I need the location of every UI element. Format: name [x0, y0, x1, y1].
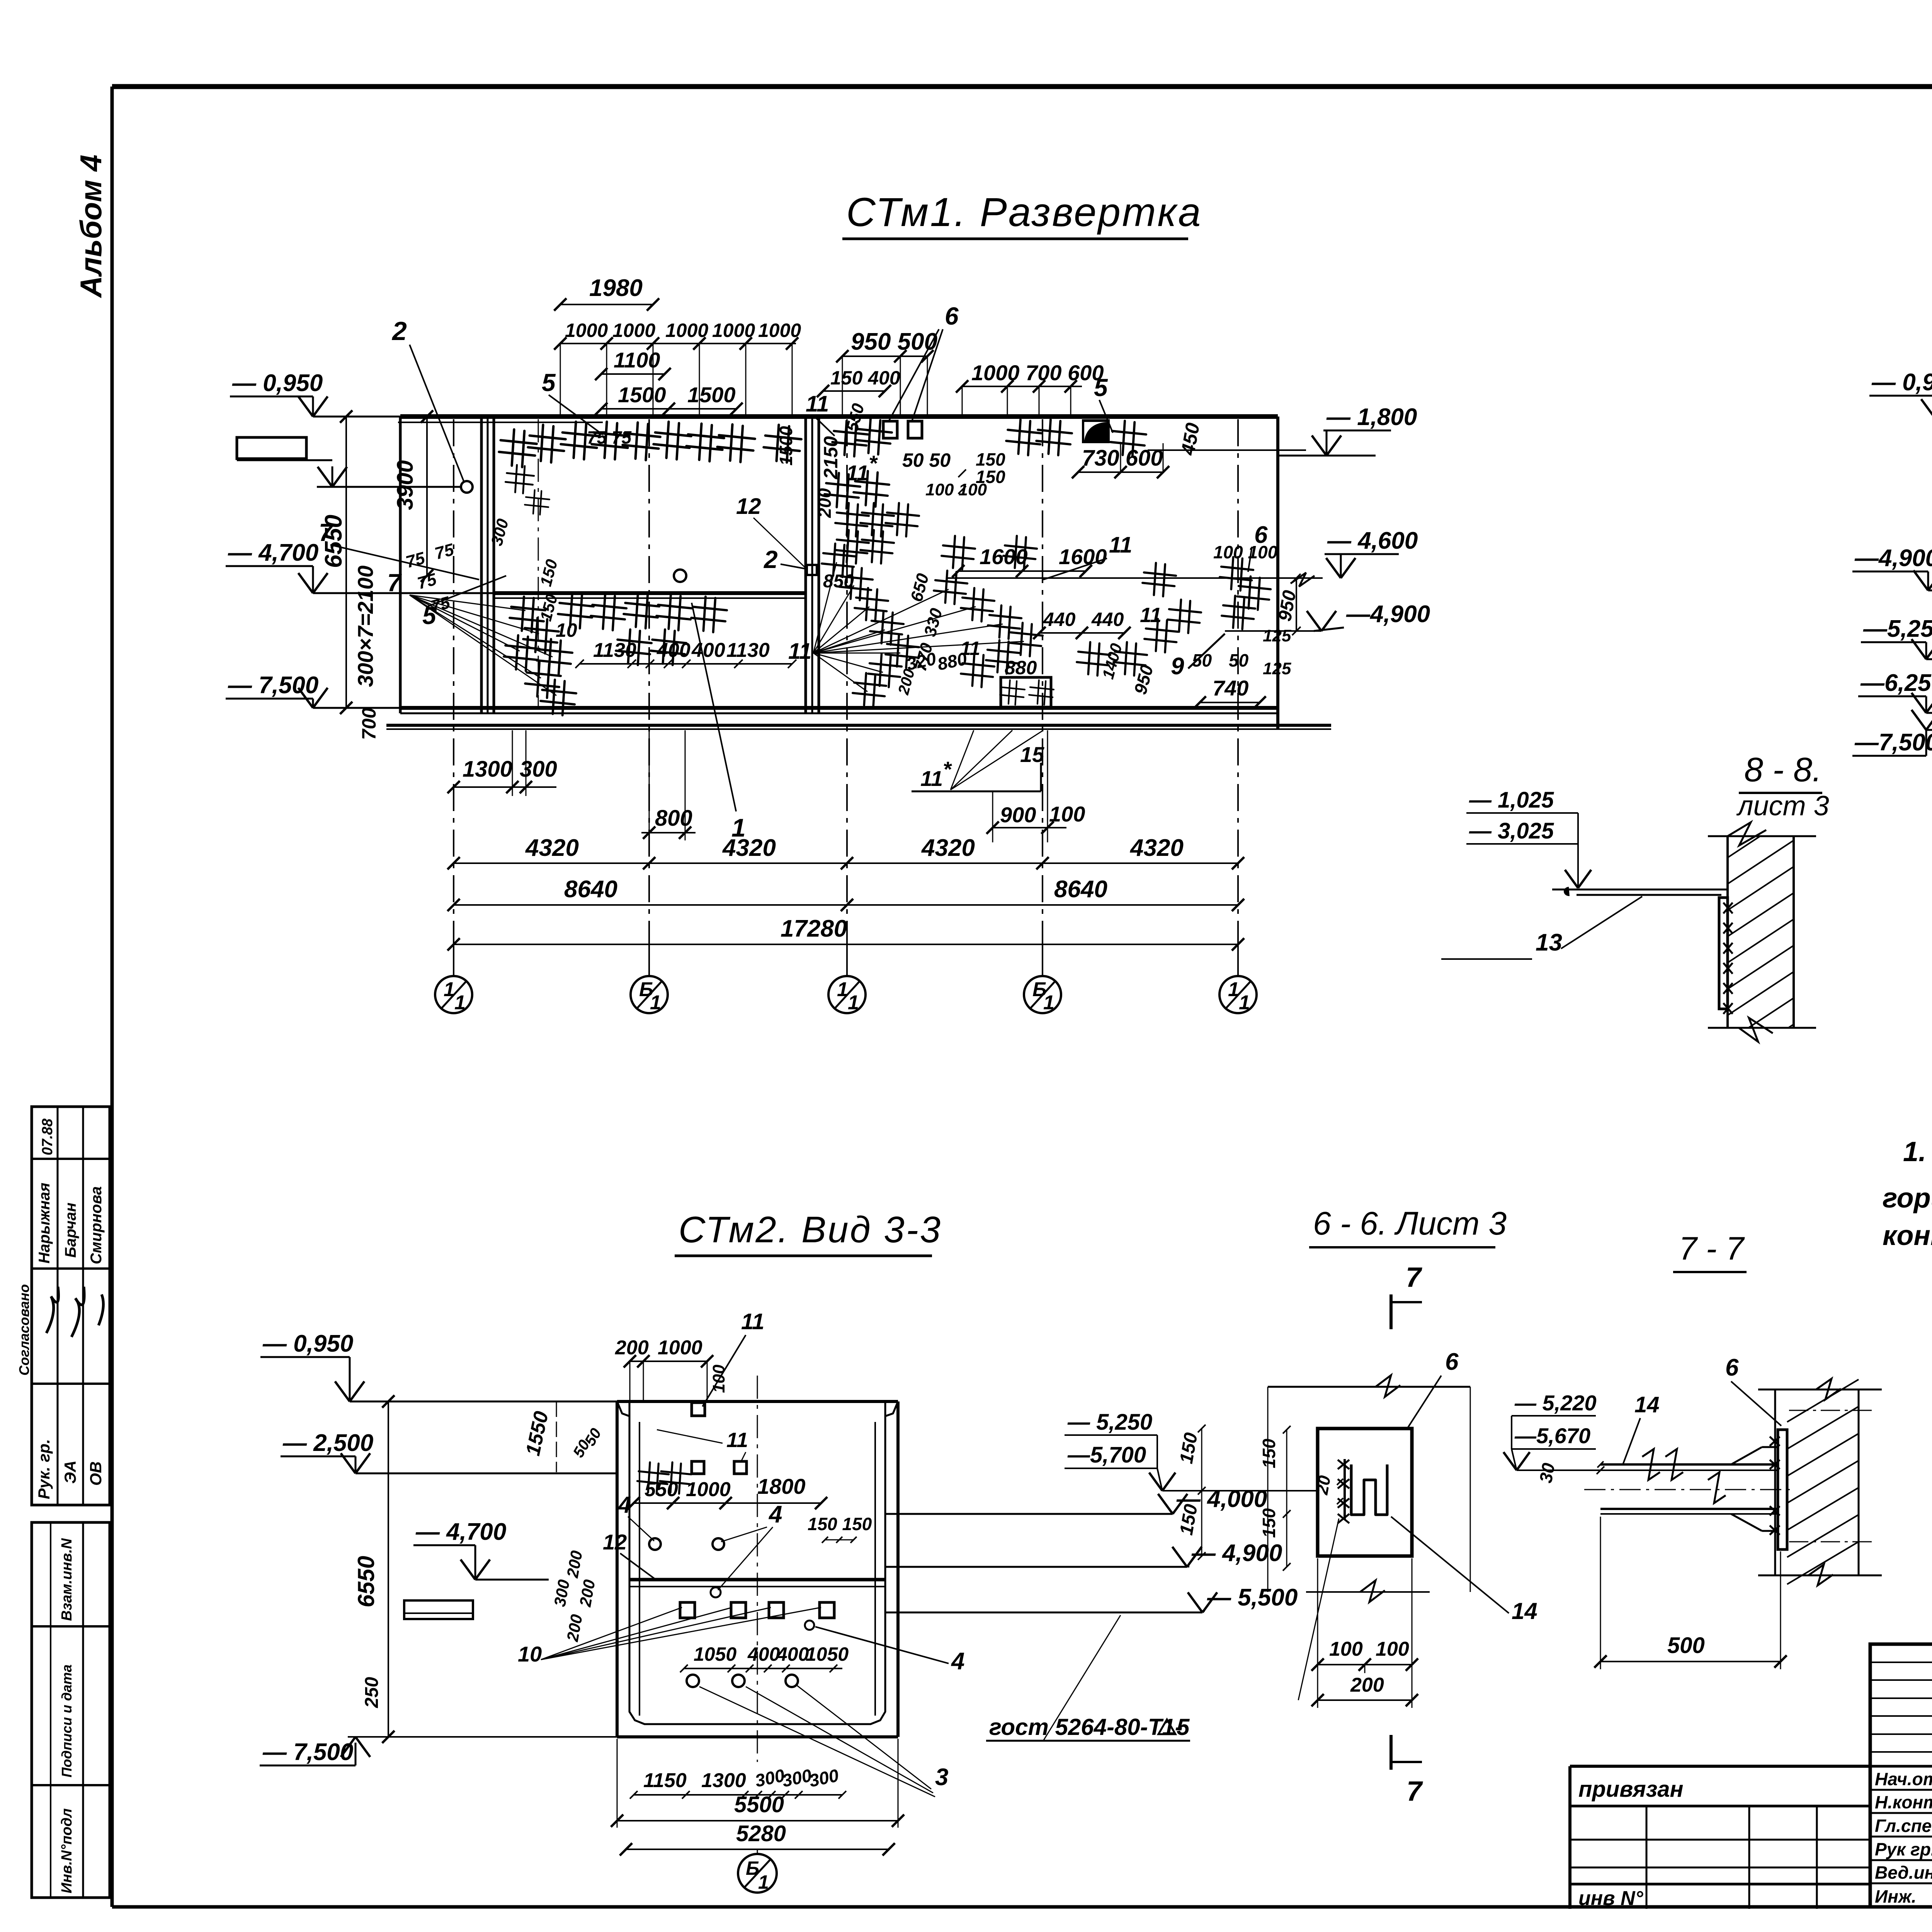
- svg-text:4: 4: [768, 1501, 782, 1528]
- svg-text:1: 1: [454, 992, 466, 1014]
- svg-text:4320: 4320: [722, 835, 776, 861]
- svg-text:1150: 1150: [643, 1769, 687, 1792]
- svg-text:— 4,700: — 4,700: [228, 539, 318, 566]
- svg-text:6: 6: [1254, 522, 1268, 548]
- svg-text:гост 5264-80-Т1-: гост 5264-80-Т1-: [989, 1714, 1183, 1740]
- svg-text:— 7,500: — 7,500: [262, 1739, 353, 1765]
- svg-text:Смирнова: Смирнова: [88, 1186, 105, 1264]
- svg-text:1980: 1980: [589, 275, 643, 301]
- svg-text:1: 1: [848, 992, 859, 1014]
- svg-text:4320: 4320: [525, 835, 579, 861]
- svg-text:17280: 17280: [781, 915, 847, 942]
- svg-text:1000: 1000: [758, 320, 801, 341]
- view3 centerline: [757, 1376, 758, 1762]
- svg-text:1050: 1050: [694, 1643, 736, 1665]
- left stamp table lower: [32, 1522, 110, 1898]
- svg-text:200: 200: [815, 488, 835, 518]
- svg-text:8640: 8640: [564, 876, 617, 903]
- svg-text:3900: 3900: [393, 460, 418, 510]
- svg-text:— 1,025: — 1,025: [1469, 787, 1554, 813]
- grid bubbles: [453, 944, 454, 976]
- svg-text:11: 11: [846, 461, 869, 485]
- svg-text:200: 200: [615, 1337, 649, 1359]
- svg-text:1600: 1600: [1059, 544, 1107, 569]
- svg-text:100: 100: [1376, 1638, 1409, 1660]
- left revision bar: [237, 437, 306, 459]
- detail 8-8 plate: [1719, 898, 1728, 1009]
- svg-text:5: 5: [542, 369, 556, 396]
- svg-text:Инв.N°подл: Инв.N°подл: [59, 1808, 75, 1893]
- svg-text:100: 100: [1329, 1638, 1363, 1660]
- svg-text:1: 1: [1228, 978, 1239, 1001]
- 7-7 anchor head: [1731, 1447, 1762, 1464]
- svg-text:6: 6: [1725, 1354, 1739, 1381]
- svg-text:Барчан: Барчан: [62, 1202, 79, 1258]
- svg-text:50: 50: [1229, 650, 1249, 670]
- svg-text:250: 250: [362, 1677, 382, 1708]
- svg-text:—7,500: —7,500: [1854, 729, 1932, 756]
- svg-text:1130: 1130: [726, 639, 770, 662]
- view3 interior hash top cluster: [636, 1461, 670, 1495]
- svg-text:5280: 5280: [736, 1821, 786, 1846]
- svg-text:*: *: [943, 757, 952, 781]
- svg-text:7: 7: [1406, 1262, 1422, 1293]
- svg-text:— 5,500: — 5,500: [1207, 1584, 1298, 1611]
- svg-text:1500: 1500: [776, 426, 796, 466]
- svg-text:1000: 1000: [565, 320, 608, 341]
- svg-text:740: 740: [1213, 676, 1248, 700]
- svg-text:14: 14: [1512, 1598, 1537, 1624]
- detail 8-8 rod: [1552, 889, 1728, 891]
- svg-text:880: 880: [1005, 657, 1037, 679]
- svg-text:— 5,220: — 5,220: [1514, 1391, 1597, 1415]
- svg-text:14: 14: [1634, 1392, 1660, 1417]
- svg-text:—6,250: —6,250: [1860, 670, 1932, 696]
- svg-text:1050: 1050: [806, 1643, 849, 1665]
- svg-text:Рук. гр.: Рук. гр.: [35, 1439, 53, 1499]
- svg-text:8 - 8.: 8 - 8.: [1744, 750, 1822, 789]
- svg-text:— 0,950: — 0,950: [232, 370, 323, 396]
- svg-text:150: 150: [1259, 1439, 1279, 1468]
- svg-text:100: 100: [1049, 802, 1085, 826]
- svg-text:1130: 1130: [593, 639, 636, 662]
- svg-text:— 1,800: — 1,800: [1326, 404, 1417, 430]
- svg-text:1: 1: [1043, 992, 1054, 1014]
- dim row 17280: [454, 944, 1238, 945]
- svg-text:2150: 2150: [820, 436, 842, 480]
- view3 wall top chamfers: [617, 1401, 629, 1416]
- svg-text:5500: 5500: [734, 1792, 784, 1817]
- svg-text:1000 700 600: 1000 700 600: [971, 361, 1104, 385]
- svg-text:*: *: [869, 451, 878, 475]
- svg-text:12: 12: [736, 494, 761, 519]
- svg-text:горизонтальной арматуре стен: горизонтальной арматуре стен для создани…: [1883, 1183, 1932, 1214]
- mid right hash clusters: [940, 534, 976, 571]
- svg-text:100: 100: [709, 1364, 728, 1393]
- svg-text:30: 30: [1536, 1461, 1559, 1485]
- svg-text:125: 125: [1263, 626, 1291, 645]
- break marks: [1728, 822, 1766, 845]
- svg-text:— 0,950: — 0,950: [1871, 369, 1932, 396]
- svg-text:300×7=2100: 300×7=2100: [353, 565, 378, 687]
- left stamp table upper: [32, 1107, 110, 1505]
- label rows: [1870, 1789, 1932, 1791]
- svg-text:—5,670: —5,670: [1514, 1423, 1590, 1448]
- view3 embed squares top: [692, 1403, 705, 1416]
- svg-text:5: 5: [1177, 1714, 1190, 1740]
- section marker 7 bottom: [1389, 1735, 1393, 1770]
- svg-text:Н.контр: Н.контр: [1875, 1792, 1932, 1812]
- svg-text:Подписи и дата: Подписи и дата: [59, 1665, 75, 1777]
- svg-text:Б: Б: [746, 1857, 759, 1879]
- thin rows left part: [1870, 1662, 1932, 1663]
- svg-text:150 150: 150 150: [808, 1514, 872, 1534]
- svg-text:привязан: привязан: [1578, 1777, 1684, 1802]
- svg-text:50: 50: [1192, 650, 1212, 670]
- hash cluster under 11*: [834, 502, 870, 538]
- svg-text:4320: 4320: [1129, 835, 1184, 861]
- svg-text:440: 440: [1043, 609, 1076, 630]
- circle embed mid: [674, 570, 686, 582]
- svg-text:8640: 8640: [1054, 876, 1107, 903]
- svg-text:500: 500: [1667, 1633, 1705, 1658]
- view1 left edge: [399, 417, 402, 713]
- svg-text:20: 20: [1312, 1474, 1334, 1497]
- svg-text:6 - 6. Лист 3: 6 - 6. Лист 3: [1313, 1205, 1507, 1242]
- view3 tank outline: [617, 1400, 898, 1403]
- svg-text:Гл.спец: Гл.спец: [1875, 1816, 1932, 1836]
- svg-text:700: 700: [358, 707, 380, 740]
- svg-text:12: 12: [603, 1530, 627, 1554]
- svg-text:800: 800: [655, 806, 692, 831]
- svg-text:900: 900: [1000, 803, 1036, 827]
- panel centerline: [538, 419, 539, 707]
- title block left attachment table: [1570, 1765, 1870, 1768]
- svg-text:—4,900: —4,900: [1346, 601, 1430, 628]
- view3 circles: [649, 1538, 661, 1550]
- 6-6 plate: [1318, 1429, 1412, 1556]
- svg-text:1000: 1000: [658, 1337, 702, 1359]
- view1 right edge with step: [1276, 417, 1279, 456]
- svg-text:СТм1. Развертка: СТм1. Развертка: [846, 190, 1202, 235]
- level line to circle 2: [318, 467, 332, 487]
- svg-text:— 2,500: — 2,500: [282, 1430, 373, 1456]
- svg-text:СТм2. Вид 3-3: СТм2. Вид 3-3: [679, 1209, 942, 1250]
- view1 bottom band: [400, 706, 1278, 710]
- svg-text:400: 400: [747, 1643, 780, 1665]
- stamp signatures: [46, 1287, 59, 1333]
- 6-6 top break line: [1268, 1386, 1470, 1388]
- 7-7 rod breaks: [1642, 1449, 1660, 1480]
- svg-text:11: 11: [726, 1429, 748, 1452]
- svg-text:400: 400: [656, 639, 690, 662]
- svg-text:1: 1: [1239, 992, 1250, 1014]
- svg-text:1000: 1000: [665, 320, 708, 341]
- 6-6 bottom break: [1306, 1591, 1430, 1593]
- svg-text:200: 200: [1350, 1674, 1384, 1696]
- right lower hashes: [1075, 641, 1112, 677]
- svg-text:Согласовано: Согласовано: [16, 1284, 32, 1376]
- title block main outline: [1870, 1644, 1932, 1907]
- svg-text:7: 7: [1406, 1776, 1423, 1807]
- view3 partition line: [629, 1578, 885, 1582]
- view1 left panel top hash row: [497, 428, 538, 469]
- view3 embedded plates mid row squares: [680, 1602, 695, 1618]
- detail 8-8 wall: [1726, 836, 1729, 1028]
- view3 left bar symbol: [404, 1600, 473, 1619]
- svg-text:1100: 1100: [614, 348, 660, 372]
- drawing frame: [112, 84, 1932, 89]
- svg-text:ОВ: ОВ: [87, 1461, 105, 1486]
- 7-7 wall: [1774, 1389, 1776, 1575]
- svg-text:1500: 1500: [618, 383, 666, 407]
- svg-text:— 4,700: — 4,700: [415, 1519, 506, 1545]
- 6-6 channel weld symbol: [1351, 1464, 1387, 1515]
- svg-text:Вед.инж: Вед.инж: [1875, 1862, 1932, 1883]
- view1 level lines right: [947, 577, 1323, 579]
- svg-text:2: 2: [391, 316, 407, 346]
- 880 box lower: [1001, 677, 1051, 707]
- svg-text:10: 10: [518, 1642, 542, 1666]
- svg-text:950 500: 950 500: [851, 328, 937, 355]
- svg-text:инв N°: инв N°: [1578, 1887, 1644, 1910]
- view1 left panel partition: [494, 591, 806, 595]
- 7-7 wall centerline dashdot: [1789, 1410, 1874, 1411]
- svg-text:15: 15: [1020, 742, 1044, 767]
- svg-text:7 - 7: 7 - 7: [1679, 1230, 1745, 1267]
- dim row 8640: [454, 904, 1238, 906]
- svg-text:6: 6: [1445, 1349, 1459, 1375]
- svg-text:100 100: 100 100: [925, 480, 987, 499]
- svg-text:4: 4: [951, 1648, 964, 1675]
- svg-text:Взам.инв.N: Взам.инв.N: [59, 1538, 75, 1621]
- svg-text:Альбом 4: Альбом 4: [74, 155, 108, 298]
- 7-7 plate: [1778, 1430, 1787, 1549]
- svg-text:5: 5: [1094, 374, 1108, 401]
- svg-text:730 600: 730 600: [1082, 446, 1163, 471]
- svg-text:1300: 1300: [463, 757, 512, 782]
- svg-text:07.88: 07.88: [39, 1118, 56, 1155]
- svg-text:6: 6: [945, 302, 959, 330]
- 7-7 rod: [1600, 1463, 1777, 1466]
- svg-text:400: 400: [691, 639, 725, 662]
- view1 right panel top hash row: [831, 419, 869, 458]
- svg-text:6550: 6550: [353, 1556, 379, 1607]
- svg-text:11: 11: [788, 639, 811, 664]
- svg-text:7: 7: [387, 569, 402, 597]
- black corner square: [1082, 419, 1110, 443]
- svg-text:1000: 1000: [712, 320, 755, 341]
- svg-text:1: 1: [837, 978, 848, 1001]
- svg-text:9: 9: [1171, 653, 1184, 680]
- svg-text:2: 2: [764, 546, 778, 573]
- svg-text:Рук гр.: Рук гр.: [1875, 1839, 1932, 1859]
- svg-text:150: 150: [1259, 1508, 1279, 1538]
- svg-text:1800: 1800: [757, 1474, 806, 1498]
- view1 left panel joint triple lines: [480, 417, 483, 713]
- svg-text:1: 1: [444, 978, 455, 1001]
- svg-text:— 5,250: — 5,250: [1067, 1410, 1152, 1435]
- svg-text:—5,250: —5,250: [1863, 616, 1932, 642]
- svg-text:Инж.: Инж.: [1875, 1886, 1917, 1906]
- grid axis dash-dot lines: [453, 419, 454, 976]
- svg-text:13: 13: [1536, 929, 1562, 956]
- svg-text:50 50: 50 50: [902, 449, 951, 471]
- svg-text:—5,700: —5,700: [1067, 1442, 1146, 1468]
- svg-text:ЭА: ЭА: [61, 1460, 79, 1484]
- svg-text:125: 125: [1263, 659, 1291, 678]
- svg-text:— 4,600: — 4,600: [1327, 527, 1418, 554]
- weld crosses: [1723, 903, 1733, 913]
- svg-text:— 7,500: — 7,500: [228, 672, 318, 699]
- svg-text:1500: 1500: [687, 383, 736, 407]
- svg-text:—4,900: —4,900: [1854, 545, 1932, 571]
- svg-text:400: 400: [776, 1643, 809, 1665]
- view3 inner walls: [629, 1416, 885, 1724]
- view1 mid joint triple lines: [804, 417, 807, 713]
- svg-text:Нач.отд: Нач.отд: [1875, 1769, 1932, 1789]
- svg-text:Нарыжная: Нарыжная: [36, 1183, 53, 1264]
- svg-text:1. Закладные изделия поз. 11: 1. Закладные изделия поз. 11*приварить к: [1903, 1136, 1932, 1167]
- view1 top edge: [400, 414, 1278, 419]
- svg-text:1000: 1000: [686, 1478, 731, 1501]
- svg-text:440: 440: [1091, 609, 1124, 630]
- svg-text:1: 1: [650, 992, 661, 1014]
- small squares top right panel: [883, 421, 897, 438]
- svg-text:11: 11: [920, 766, 943, 791]
- svg-text:3: 3: [935, 1764, 948, 1791]
- svg-text:контура заземления.: контура заземления.: [1883, 1220, 1932, 1251]
- svg-text:4: 4: [618, 1492, 631, 1518]
- view1 left panel lower hash fan: [508, 595, 547, 634]
- svg-text:11: 11: [1109, 532, 1132, 558]
- svg-text:4320: 4320: [921, 835, 975, 861]
- svg-text:11: 11: [741, 1309, 764, 1334]
- svg-text:100 100: 100 100: [1213, 542, 1278, 562]
- svg-text:1: 1: [731, 813, 746, 842]
- svg-text:— 0,950: — 0,950: [262, 1330, 353, 1357]
- view3 grid bubble: [757, 1849, 758, 1855]
- dim row 4320: [454, 862, 1238, 864]
- svg-text:1000: 1000: [612, 320, 655, 341]
- svg-text:7: 7: [319, 519, 334, 546]
- svg-text:лист 3: лист 3: [1736, 791, 1829, 821]
- svg-text:1300: 1300: [701, 1769, 746, 1792]
- svg-text:10: 10: [556, 619, 577, 641]
- svg-text:1: 1: [758, 1871, 769, 1893]
- svg-text:— 3,025: — 3,025: [1469, 818, 1554, 844]
